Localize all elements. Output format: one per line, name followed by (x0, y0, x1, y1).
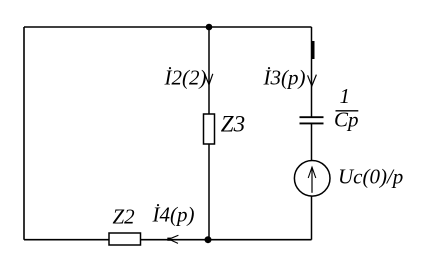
wire top (node top-left to node top-right) (24, 26, 312, 28)
node B (junction dot bottom, middle branch and bottom wire) (205, 236, 212, 243)
arrow I2 head (current arrow on middle branch, pointing down) (205, 74, 213, 85)
arrow I4 tip blob (167, 238, 171, 241)
arrow I3 head (current arrow on right branch, pointing down) (308, 75, 317, 86)
svg-text:Z3: Z3 (221, 112, 245, 137)
svg-text:İ4(p): İ4(p) (152, 202, 195, 226)
source U1 circle (voltage source Uc(0)/p) (294, 161, 330, 197)
wire middle branch (top node down to bottom node) (208, 27, 210, 240)
capacitor C plate 2 (300, 122, 324, 124)
svg-text:İ3(p): İ3(p) (263, 66, 306, 90)
source U1 arrow shaft (inside circle, pointing up) (311, 167, 313, 193)
wire right branch upper (top-right corner down to capacitor) (311, 27, 313, 117)
arrow I4 head (current arrow on bottom wire, pointing left) (169, 235, 179, 243)
svg-text:Uc(0)/p: Uc(0)/p (338, 165, 403, 189)
wire right branch middle (capacitor to source) (311, 124, 313, 162)
value label 1/Cp fraction bar (336, 110, 359, 112)
capacitor C plate 1 (300, 116, 324, 118)
svg-text:Cp: Cp (334, 108, 359, 132)
svg-text:1: 1 (340, 84, 351, 108)
svg-text:Z2: Z2 (113, 205, 136, 229)
svg-text:İ2(2): İ2(2) (164, 65, 207, 89)
source U1 arrow head (308, 167, 316, 178)
arrow I3 shaft (bold segment on right branch) (312, 41, 315, 59)
wire bottom (bottom-left corner to bottom-right corner) (24, 239, 312, 241)
wire right branch lower (source to bottom-right corner) (311, 196, 313, 240)
resistor Z2 body (109, 233, 141, 245)
resistor Z3 body (204, 114, 215, 144)
node A (junction dot top, middle branch and top wire) (206, 24, 213, 31)
wire left (top-left corner down to bottom-left corner) (23, 27, 25, 240)
